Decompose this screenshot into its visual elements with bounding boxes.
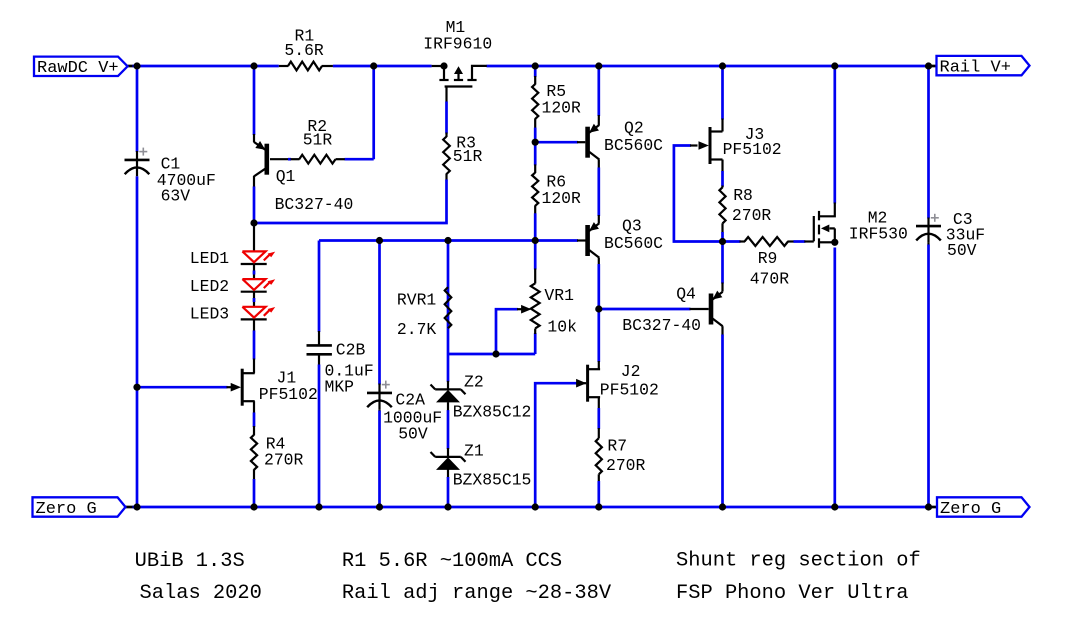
annotation R1 note — [342, 550, 562, 573]
wire J1 source to R4 — [253, 401, 255, 507]
annotation UBiB 1.3S — [135, 550, 245, 573]
wire Z branch (mid rail to Z2) — [447, 241, 450, 390]
wire Q4 collector to ground — [721, 326, 723, 507]
wire VR1 top lead — [534, 241, 537, 284]
junction mid rail/R6-VR1 — [532, 237, 539, 244]
junction mid rail/RVR1 — [444, 237, 451, 244]
svg-text:Shunt reg section of: Shunt reg section of — [676, 550, 921, 573]
annotation shunt reg 1 — [676, 550, 921, 573]
svg-text:Rail V+: Rail V+ — [940, 59, 1011, 78]
svg-text:LED2: LED2 — [190, 277, 229, 296]
junction C1/J1 gate — [133, 384, 140, 391]
wire J2 gate to ground — [535, 383, 586, 507]
junction R8/R9 node — [719, 238, 726, 245]
wire VR1 wiper — [496, 305, 531, 354]
svg-text:63V: 63V — [161, 187, 191, 206]
svg-text:LED3: LED3 — [190, 305, 229, 324]
jfet J3 PF5102 — [699, 125, 782, 164]
svg-text:50V: 50V — [947, 241, 977, 260]
svg-text:IRF9610: IRF9610 — [423, 35, 492, 54]
svg-text:UBiB 1.3S: UBiB 1.3S — [135, 550, 245, 573]
svg-text:Q4: Q4 — [676, 285, 696, 304]
led LED2 — [190, 277, 275, 296]
junction Q2 base — [532, 139, 539, 146]
svg-text:5.6R: 5.6R — [284, 41, 324, 60]
resistor R7 — [596, 437, 646, 475]
svg-text:51R: 51R — [303, 130, 333, 149]
svg-text:BZX85C12: BZX85C12 — [453, 402, 532, 421]
wire Q2 emitter to rail — [597, 66, 600, 125]
led LED3 — [190, 305, 275, 324]
jfet J1 PF5102 — [231, 368, 318, 405]
svg-text:R7: R7 — [607, 437, 627, 456]
resistor R1 — [279, 26, 333, 70]
transistor Q3 BC560C — [588, 217, 664, 258]
junction wiper tap — [492, 350, 499, 357]
svg-text:51R: 51R — [453, 147, 483, 166]
svg-text:BC560C: BC560C — [604, 234, 663, 253]
wire C1 branch upper — [136, 66, 139, 160]
transistor Q4 BC327-40 — [622, 285, 722, 335]
svg-text:PF5102: PF5102 — [259, 385, 318, 404]
capacitor C3 — [916, 210, 985, 260]
wire Z2 to Z1 — [447, 402, 449, 457]
wire top rail (M1 drain to Rail V+) — [487, 65, 937, 68]
svg-text:Q2: Q2 — [624, 119, 644, 138]
svg-text:Q1: Q1 — [276, 167, 296, 186]
svg-text:50V: 50V — [398, 424, 428, 443]
junction rail/Q1 — [250, 62, 257, 69]
wire Q2 collector to Q3 emitter — [598, 160, 600, 224]
wire M2 source to ground — [833, 248, 836, 508]
junction ground/Z1 — [444, 503, 451, 510]
wire R3 leads — [445, 133, 447, 181]
wire bottom rail Zero G — [126, 506, 938, 509]
junction rail/M1 source — [440, 62, 447, 69]
junction rail/Q2 — [595, 62, 602, 69]
resistor R9 — [745, 237, 790, 288]
junction ground/M2 — [831, 503, 838, 510]
svg-text:270R: 270R — [732, 206, 772, 225]
jfet J2 PF5102 — [576, 362, 659, 402]
wire R2 right to R1 drop — [345, 66, 374, 159]
svg-text:Z2: Z2 — [464, 372, 484, 391]
svg-text:R8: R8 — [733, 186, 753, 205]
svg-text:PF5102: PF5102 — [723, 140, 782, 159]
svg-text:C2B: C2B — [336, 340, 366, 359]
mosfet M1 IRF9610 — [423, 18, 492, 87]
wire Q1 emitter from rail — [253, 66, 256, 142]
wire R5 branch from rail — [534, 66, 537, 85]
ground flag Zero G right — [937, 497, 1030, 519]
svg-text:BC327-40: BC327-40 — [275, 195, 354, 214]
wire J3 gate loop — [674, 146, 723, 242]
junction ground/R7 — [595, 503, 602, 510]
junction Q4 base — [595, 305, 602, 312]
junction rail/R5 — [532, 62, 539, 69]
wire J3 drain from rail — [721, 66, 724, 132]
svg-text:VR1: VR1 — [544, 286, 574, 305]
wire LED chain segments — [253, 223, 255, 360]
svg-text:PF5102: PF5102 — [600, 380, 659, 399]
junction ground/J2 gate — [532, 503, 539, 510]
potentiometer VR1 — [531, 283, 577, 336]
wire Q1 collector to LED junction — [253, 176, 255, 223]
resistor R6 — [532, 173, 581, 208]
wire R3 bottom to Q1 collector (y=223) — [254, 180, 447, 224]
transistor Q2 BC560C — [588, 119, 664, 160]
wire R5 to Q2 base junction — [534, 119, 536, 143]
junction mid rail/C2A — [376, 237, 383, 244]
resistor R3 — [443, 134, 482, 174]
annotation shunt reg 2 — [676, 582, 909, 605]
wire mid rail (C2B to Q3 base) — [319, 239, 586, 242]
wire Q3 collector to J2 drain — [598, 258, 600, 369]
wire C2A branch — [378, 241, 381, 508]
junction Q1 collector/LED — [250, 219, 257, 226]
wire LED3 to J1 drain — [253, 359, 255, 374]
zener Z2 BZX85C12 — [431, 372, 532, 421]
svg-text:J2: J2 — [621, 362, 641, 381]
wire M2 drain from rail — [833, 66, 836, 204]
annotation rail adj note — [342, 582, 612, 605]
svg-text:MKP: MKP — [325, 377, 355, 396]
junction rail/R1-R2 — [370, 62, 377, 69]
junction rail/J3 — [719, 62, 726, 69]
zener Z1 BZX85C15 — [431, 442, 532, 490]
wire C3 branch — [927, 66, 930, 507]
svg-text:Zero G: Zero G — [940, 500, 1001, 519]
svg-text:Zero G: Zero G — [36, 500, 97, 519]
resistor R4 — [251, 434, 304, 470]
junction M2 source/body — [831, 239, 838, 246]
transistor Q1 BC327-40 — [254, 141, 354, 214]
svg-text:120R: 120R — [542, 189, 582, 208]
svg-text:270R: 270R — [606, 456, 646, 475]
wire M1 gate drop to R3 — [445, 87, 447, 134]
capacitor C2B — [307, 340, 374, 396]
svg-text:RVR1: RVR1 — [397, 291, 437, 310]
wire C1 branch lower — [136, 176, 139, 507]
resistor R5 — [532, 82, 581, 119]
wire top rail (RawDC V+ to M1 source) — [128, 65, 432, 68]
wire Q4 emitter to node — [721, 242, 724, 292]
wire C2B branch — [318, 241, 321, 508]
svg-text:Q3: Q3 — [622, 217, 642, 236]
wire J1 gate from C1 branch — [137, 386, 232, 389]
wire R9 to M2 gate — [788, 240, 814, 242]
ground flag Zero G left — [33, 497, 126, 519]
resistor R2 — [291, 117, 345, 163]
power flag RawDC V+ — [34, 57, 128, 79]
junction ground/C2B — [315, 503, 322, 510]
svg-text:2.7K: 2.7K — [397, 320, 437, 339]
wire Z1 to bottom rail — [447, 469, 449, 507]
mosfet M2 IRF530 — [814, 203, 908, 248]
junction ground/Q4 — [719, 503, 726, 510]
svg-text:270R: 270R — [264, 450, 304, 469]
svg-text:R9: R9 — [758, 249, 778, 268]
resistor R8 — [719, 186, 771, 225]
svg-text:BC560C: BC560C — [604, 136, 663, 155]
svg-text:C2A: C2A — [395, 391, 425, 410]
junction rail/C1 — [133, 62, 140, 69]
power flag Rail V+ — [937, 56, 1030, 78]
svg-text:LED1: LED1 — [190, 249, 230, 268]
junction ground/C2A — [376, 503, 383, 510]
junction rail/C3 — [925, 62, 932, 69]
svg-text:120R: 120R — [542, 98, 582, 117]
wire Q4 base — [599, 308, 709, 311]
svg-text:BZX85C15: BZX85C15 — [453, 470, 532, 489]
capacitor C2A — [367, 381, 442, 444]
wire J3 source to R8 — [721, 160, 723, 242]
wire wiper tap (y=354) — [448, 329, 535, 355]
svg-text:10k: 10k — [547, 317, 577, 336]
junction ground/C1 — [133, 503, 140, 510]
wire Q1 base to R2 — [270, 158, 291, 160]
svg-text:RawDC V+: RawDC V+ — [37, 59, 119, 78]
capacitor C1 — [125, 148, 216, 206]
annotation Salas 2020 — [140, 582, 262, 605]
svg-text:470R: 470R — [750, 269, 790, 288]
wire Q2 base — [535, 141, 585, 144]
junction ground/C3 — [925, 503, 932, 510]
wire J2 source to R7 — [598, 397, 600, 507]
junction ground/R4 — [250, 503, 257, 510]
svg-text:Z1: Z1 — [464, 442, 484, 461]
svg-text:BC327-40: BC327-40 — [622, 316, 701, 335]
svg-text:Rail adj range ~28-38V: Rail adj range ~28-38V — [342, 582, 612, 605]
wire node to R9 — [723, 240, 746, 243]
trimmer RVR1 — [397, 287, 451, 339]
led LED1 — [190, 249, 275, 268]
svg-text:FSP Phono Ver Ultra: FSP Phono Ver Ultra — [676, 582, 909, 605]
svg-text:IRF530: IRF530 — [849, 225, 908, 244]
junction rail/M2 — [831, 62, 838, 69]
svg-text:Salas 2020: Salas 2020 — [140, 582, 262, 605]
wire R6 leads — [534, 142, 537, 240]
svg-text:R1 5.6R ~100mA CCS: R1 5.6R ~100mA CCS — [342, 550, 562, 573]
